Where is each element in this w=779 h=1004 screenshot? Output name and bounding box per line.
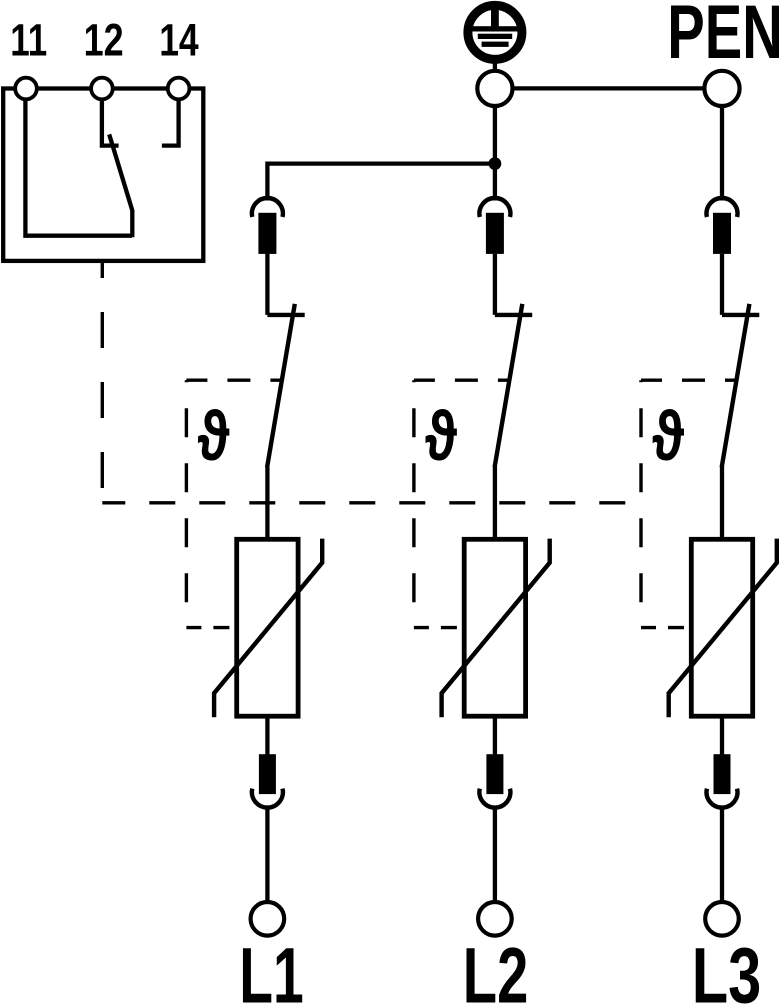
svg-text:L1: L1 (239, 931, 304, 1004)
dashed thermal-coupling box L3: left edge (639, 380, 642, 627)
branch wire junction to L1 column (267, 164, 495, 201)
wire from terminal 14 with contact tick (162, 99, 179, 146)
wire from terminal 12 with contact tick (102, 99, 119, 146)
svg-text:ϑ: ϑ (652, 397, 684, 475)
wire disconnect to switch L1 (265, 254, 269, 315)
varistor RV3 body (691, 539, 752, 716)
svg-text:12: 12 (84, 14, 124, 65)
thermal disconnect device F2 (upper) arc (479, 198, 510, 217)
wire PEN terminal down (720, 100, 724, 201)
thermal disconnect device F1 (upper) body (258, 213, 276, 254)
wire switch to varistor L2 (493, 466, 497, 541)
wire from terminal 11 (25, 99, 131, 236)
stub wire PE symbol to PE terminal (493, 60, 497, 72)
varistor RV2 body (464, 539, 525, 716)
switch blade S3 (722, 304, 750, 467)
thermal disconnect device F3 (upper) body (713, 213, 731, 254)
wire junction down to L2 disconnector (493, 164, 497, 201)
thermal disconnect device (lower) L2 body (486, 754, 503, 794)
wire varistor to lower disconnect L3 (720, 716, 724, 756)
thermal disconnect device F2 (upper) body (486, 213, 504, 254)
thermal disconnect device F1 (upper) arc (252, 198, 283, 217)
wire switch to varistor L3 (720, 466, 724, 541)
svg-text:14: 14 (159, 14, 199, 65)
terminal circle 12 (91, 78, 113, 100)
wire switch to varistor L1 (265, 466, 269, 541)
svg-text:L3: L3 (692, 931, 762, 1004)
svg-text:11: 11 (10, 14, 47, 65)
PEN terminal circle (704, 71, 739, 106)
wire PE terminal down to junction (493, 100, 497, 164)
wire disconnect to switch L2 (493, 254, 497, 315)
svg-text:ϑ: ϑ (425, 397, 457, 475)
switch blade S2 (495, 304, 523, 467)
switch contact tick L3 (722, 313, 759, 317)
switch contact tick L1 (267, 313, 304, 317)
switch blade S1 (267, 304, 295, 467)
terminal circle 14 (168, 78, 190, 100)
thermal disconnect device (lower) L1 body (259, 754, 276, 794)
dashed thermal-coupling box L3: bottom edge (641, 626, 691, 629)
varistor RV2 diagonal stroke (442, 539, 550, 718)
changeover switch blade (109, 134, 132, 237)
thermal disconnect device (lower) L2 arc (479, 789, 510, 808)
terminal circle L3 (705, 902, 739, 936)
junction dot (489, 157, 502, 170)
wire varistor to lower disconnect L1 (265, 716, 269, 756)
PE terminal circle (477, 71, 512, 106)
svg-text:ϑ: ϑ (197, 397, 229, 475)
thermal disconnect device (lower) L3 arc (706, 789, 737, 808)
terminal circle L2 (478, 902, 512, 936)
varistor RV1 diagonal stroke (214, 539, 322, 718)
terminal circle L1 (251, 902, 285, 936)
dashed thermal-coupling box L2: top edge (414, 379, 509, 382)
wire to terminal L2 (493, 807, 497, 903)
dashed linkage from contact box down (101, 261, 104, 503)
wire to terminal L3 (720, 807, 724, 903)
thermal disconnect device F3 (upper) arc (707, 198, 738, 217)
dashed thermal-coupling box L1: left edge (185, 380, 188, 627)
wire varistor to lower disconnect L2 (493, 716, 497, 756)
terminal circle 11 (15, 78, 37, 100)
wire disconnect to switch L3 (720, 254, 724, 315)
thermal disconnect device (lower) L3 body (714, 754, 731, 794)
remote signalling contact box K1 (3, 89, 203, 261)
dashed thermal-coupling box L1: bottom edge (186, 626, 236, 629)
dashed thermal-coupling box L2: bottom edge (414, 626, 464, 629)
dashed thermal-coupling box L2: left edge (412, 380, 415, 627)
wire PE terminal to PEN terminal (500, 86, 718, 90)
wire to terminal L1 (265, 807, 269, 903)
thermal disconnect device (lower) L1 arc (252, 789, 283, 808)
dashed linkage horizontal run (102, 501, 639, 504)
dashed thermal-coupling box L3: top edge (641, 379, 736, 382)
svg-text:PEN: PEN (667, 0, 779, 75)
protective earth symbol (PE) (468, 5, 522, 59)
varistor RV3 diagonal stroke (669, 539, 777, 718)
switch contact tick L2 (495, 313, 532, 317)
dashed thermal-coupling box L1: top edge (186, 379, 281, 382)
varistor RV1 body (237, 539, 298, 716)
svg-text:L2: L2 (463, 931, 529, 1004)
